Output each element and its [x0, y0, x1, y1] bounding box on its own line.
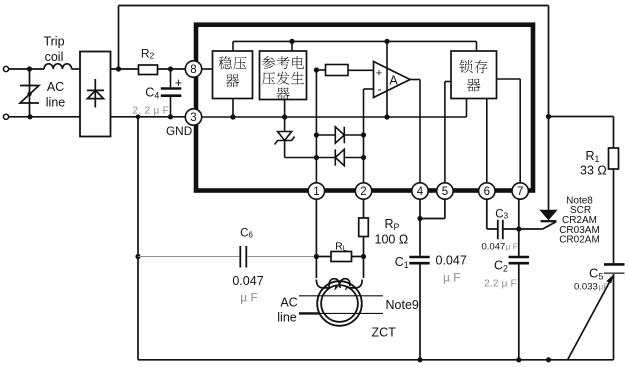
svg-text:+: + [376, 67, 382, 79]
wire top outer loop [119, 5, 549, 7]
resistor R1 [609, 148, 619, 169]
svg-text:ZCT: ZCT [372, 326, 397, 340]
svg-text:AC: AC [47, 80, 64, 94]
node C4 bottom [168, 114, 173, 119]
diode D1 [314, 132, 319, 137]
transformer ZCT core [317, 281, 362, 326]
svg-text:2.2 µ F: 2.2 µ F [484, 278, 517, 290]
svg-text:line: line [277, 311, 297, 325]
svg-text:0.047: 0.047 [232, 274, 263, 288]
pin 8 [185, 61, 201, 77]
wire pin5 to latch [444, 82, 446, 184]
capacitor C4 [170, 69, 172, 87]
resistor RP [363, 199, 365, 218]
wire pin6 down [486, 199, 488, 229]
wire ref to zener [284, 100, 286, 132]
winding ZCT [316, 280, 329, 288]
svg-text:+: + [175, 76, 182, 90]
node top rail ref [289, 39, 294, 44]
arrow variable [568, 278, 613, 361]
resistor R2 [139, 65, 158, 75]
wire R2 to pin8 [158, 68, 186, 70]
node bottom-left junction [27, 114, 32, 119]
wire left rail down [137, 117, 139, 360]
trip coil L1 [44, 64, 72, 69]
wire R1 to C5 [613, 169, 615, 263]
svg-text:µ F: µ F [240, 291, 258, 305]
wire latch to pin6 [486, 99, 488, 184]
node SCR branch [546, 114, 551, 119]
svg-text:33 Ω: 33 Ω [580, 164, 607, 178]
wire bridge to R2 [111, 68, 139, 70]
node top-left junction [27, 66, 32, 71]
node gate junction [516, 226, 521, 231]
svg-text:Trip: Trip [43, 35, 64, 49]
wire opamp out to pin4 [410, 79, 420, 81]
svg-text:AC: AC [280, 296, 297, 310]
wire C6 right [247, 256, 316, 258]
wire pin4 down [419, 199, 421, 256]
pin 2 [355, 183, 371, 199]
svg-text:6: 6 [484, 186, 490, 198]
svg-text:-: - [378, 82, 382, 96]
wire pin1 down [315, 199, 317, 278]
node top rail junction [116, 66, 121, 71]
svg-text:µ F: µ F [506, 242, 518, 252]
svg-text:0.047: 0.047 [436, 254, 467, 268]
pin 6 [479, 183, 495, 199]
node pin7 bottom [516, 357, 521, 362]
svg-text:CR02AM: CR02AM [559, 235, 600, 246]
terminal bottom [3, 114, 8, 119]
node GND branch [136, 115, 141, 120]
wire latch to pin7 [497, 78, 521, 80]
wire GND rail [111, 116, 186, 118]
capacitor C3 [497, 220, 499, 240]
node RL right [361, 254, 366, 259]
bridge rectifier [80, 52, 111, 137]
node top rail opamp [384, 39, 389, 44]
svg-text:µ F: µ F [443, 271, 461, 285]
wire AC top [9, 68, 44, 70]
wire regulator gnd [232, 99, 234, 118]
IC U1 border [196, 25, 533, 191]
wire AC conductor 2 [299, 312, 320, 314]
pin 1 [308, 183, 324, 199]
wire pin5 join [444, 199, 446, 218]
wire pin8 to regulator [202, 68, 213, 70]
svg-text:Note9: Note9 [386, 298, 419, 312]
varistor Z [29, 69, 31, 117]
wire to R1 [549, 116, 614, 118]
pin 7 [512, 183, 528, 199]
svg-text:GND: GND [166, 124, 192, 138]
node ref gnd [282, 114, 287, 119]
thyristor SCR [541, 210, 557, 219]
pin 3 [185, 109, 201, 125]
block latch 锁存器 [451, 51, 497, 99]
svg-text:0.033: 0.033 [574, 282, 598, 293]
svg-text:A: A [389, 73, 398, 87]
pin 4 [412, 183, 428, 199]
wire AC conductor 1 [299, 295, 383, 297]
node C4 top [168, 66, 173, 71]
wire AC bottom [9, 116, 80, 118]
node C6 branch [135, 254, 140, 259]
wire C3 to gate [503, 228, 543, 230]
svg-text:2: 2 [360, 186, 366, 198]
node pin1 rail top [314, 67, 319, 72]
svg-text:3: 3 [190, 112, 196, 124]
pin 5 [437, 183, 453, 199]
wire internal GND rail [202, 116, 467, 118]
capacitor C6 [239, 246, 241, 268]
svg-text:8: 8 [190, 64, 196, 76]
wire opamp power [386, 41, 388, 117]
diode D2 [314, 155, 319, 160]
svg-text:100 Ω: 100 Ω [375, 233, 409, 247]
svg-text:5: 5 [442, 186, 448, 198]
resistor RL [316, 256, 331, 258]
capacitor C2 [509, 256, 529, 259]
node SCR bottom [546, 357, 551, 362]
wire pin1 rail [315, 70, 317, 183]
svg-text:coil: coil [45, 50, 64, 64]
svg-text:line: line [46, 96, 66, 110]
wire bottom rail [138, 359, 614, 361]
node RL left [314, 254, 319, 259]
capacitor C5 [604, 263, 625, 266]
wire C6 left [138, 256, 239, 258]
wire internal top rail [233, 40, 477, 42]
node opamp gnd [384, 114, 389, 119]
capacitor C1 [409, 256, 429, 259]
svg-text:0.047: 0.047 [482, 242, 506, 253]
svg-text:4: 4 [417, 186, 424, 198]
terminal top [3, 66, 8, 71]
zener diode Z1 [278, 132, 292, 141]
svg-text:1: 1 [313, 186, 319, 198]
svg-text:7: 7 [517, 186, 523, 198]
op-amp A [374, 62, 411, 98]
block reference 参考电压发生器 [260, 51, 307, 100]
resistor R internal [316, 69, 325, 71]
wire pin7 down [518, 199, 520, 257]
block regulator 稳压器 [213, 51, 253, 99]
wire zener to pin1 rail [285, 157, 317, 159]
wire opamp minus to pin2 [364, 88, 374, 90]
node pin4 bottom [417, 357, 422, 362]
node pin5 join [417, 216, 422, 221]
